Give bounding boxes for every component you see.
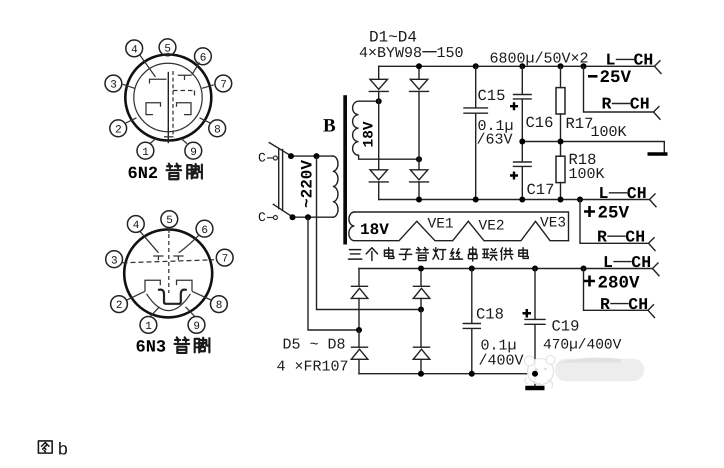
svg-text:18V: 18V (362, 121, 378, 147)
output fork R-CH -25V (654, 107, 661, 120)
label lian (connect) (483, 249, 497, 260)
svg-text:C: C (258, 150, 266, 165)
svg-text:6N3: 6N3 (136, 339, 167, 358)
label 4xBYW98-150 (359, 45, 464, 62)
6N2 pin3 lead (123, 84, 135, 88)
6N2 left cathode bracket (146, 103, 161, 115)
output fork L-CH +25V (650, 194, 657, 207)
svg-text:CH: CH (631, 253, 651, 272)
svg-text:2: 2 (115, 124, 122, 136)
wire +25V R-CH branch (580, 200, 648, 244)
6N3 center dashed line (168, 234, 170, 293)
svg-text:CH: CH (625, 227, 645, 246)
svg-text:4 ×FR107: 4 ×FR107 (277, 359, 349, 376)
label san (three) (348, 250, 361, 260)
diode D5 (351, 269, 368, 331)
diode D3 (369, 101, 388, 199)
svg-text:CH: CH (634, 51, 654, 70)
svg-text:VE2: VE2 (479, 219, 505, 235)
node top rail C16 (519, 63, 525, 69)
node top rail R17 (558, 63, 564, 69)
6N3 pin 1 (140, 317, 157, 334)
diode D6 (413, 269, 430, 310)
svg-text:C16: C16 (526, 114, 554, 132)
svg-text:L: L (603, 253, 613, 272)
node top rail branch (581, 63, 587, 69)
svg-text:VE1: VE1 (428, 217, 454, 233)
node +25 C15 (473, 197, 479, 203)
wire +280V R-CH branch (584, 269, 649, 311)
label zi (tube) (399, 249, 411, 260)
svg-text:C15: C15 (478, 87, 506, 105)
6N2 pin 7 (215, 75, 232, 92)
6N3 pin4 grid curve (140, 231, 159, 253)
rail 0V mid (522, 142, 664, 153)
6N3 pin8 lead (192, 291, 211, 300)
svg-text:D5 ~ D8: D5 ~ D8 (283, 337, 346, 354)
label dian (power) (519, 248, 528, 259)
svg-text:6: 6 (201, 225, 208, 237)
label +280V (584, 274, 640, 294)
svg-text:5: 5 (164, 43, 171, 55)
node secondary bottom (416, 156, 422, 162)
node +280 C18 (469, 266, 475, 272)
svg-text:280V: 280V (598, 274, 641, 294)
output fork R-CH +280V (648, 305, 655, 318)
label L-CH +280V (603, 253, 651, 272)
svg-text:L: L (606, 51, 616, 70)
6N2 pin5 lead (167, 53, 169, 57)
transformer secondary 18V top winding (353, 101, 419, 159)
svg-text:8: 8 (216, 300, 223, 312)
svg-text:b: b (58, 439, 68, 459)
6N2 pin 3 (105, 75, 122, 92)
node top rail D2 (416, 63, 422, 69)
node primary top right (314, 153, 320, 159)
tube socket 6N2 inner circle (134, 63, 202, 131)
wire AC1 feed (top node to lower bridge) (317, 156, 422, 309)
6N3 right grid T (173, 256, 183, 260)
node primary top left (288, 153, 294, 159)
6N2 pin7 lead (202, 85, 214, 89)
svg-text:2: 2 (116, 300, 123, 312)
svg-text:6N2: 6N2 (128, 165, 159, 184)
svg-text:6: 6 (200, 52, 207, 64)
6N3 left grid T (153, 256, 163, 260)
6N3 base arc (147, 294, 191, 311)
6N2 pin2 lead (126, 118, 137, 123)
diode D4 (410, 159, 429, 199)
rail -25V top (379, 65, 655, 67)
ground bar right (648, 152, 668, 155)
svg-text:8: 8 (214, 124, 221, 136)
wire primary bottom (293, 216, 333, 218)
6N3 pin9 lead (186, 307, 195, 316)
6N2 left grid bar (150, 79, 167, 83)
node primary bottom left (290, 214, 296, 220)
switch blade top (269, 143, 291, 156)
label -25V (588, 68, 632, 88)
svg-text:R: R (597, 227, 607, 246)
node +25 R18 (558, 197, 564, 203)
6N3 pin1 lead (151, 307, 160, 316)
6N2 pin 5 (159, 39, 176, 56)
diode D7 (351, 330, 368, 374)
6N2 pin4 lead diagonal (140, 55, 156, 77)
AC input terminal C top (258, 150, 277, 165)
capacitor C15 (464, 66, 487, 199)
svg-text:L: L (599, 184, 609, 203)
capacitor C19 (525, 269, 545, 386)
svg-text:CH: CH (630, 95, 650, 114)
wire -25V R-CH branch (584, 66, 654, 112)
filament loop top wire (354, 212, 568, 241)
diode D8 (413, 310, 430, 374)
rail +280V (359, 268, 652, 270)
svg-text:100K: 100K (591, 124, 627, 141)
svg-text:~220V: ~220V (299, 160, 317, 208)
svg-text:9: 9 (190, 147, 197, 159)
label deng (lamp) (433, 248, 446, 260)
plus sign C17 (510, 172, 518, 180)
6N2 pin6 lead diagonal (192, 63, 200, 75)
diode D2 (410, 66, 429, 159)
svg-text:3: 3 (111, 255, 118, 267)
svg-text:7: 7 (220, 80, 227, 92)
wire primary top (291, 155, 333, 157)
node AC1 lower bridge (418, 307, 424, 313)
cable line left (278, 149, 280, 209)
output fork R-CH +25V (649, 238, 656, 251)
6N3 pin2 lead (127, 291, 145, 300)
node +280 D6 (418, 266, 424, 272)
diode D1 (369, 66, 388, 101)
svg-text:7: 7 (222, 254, 229, 266)
svg-text:470µ/400V: 470µ/400V (543, 337, 622, 353)
svg-text:150: 150 (437, 45, 464, 62)
6N2 pin1 lead (150, 138, 157, 144)
6N3 horizontal dashed line (123, 260, 215, 263)
6N2 pin 6 (195, 48, 212, 65)
6N2 anode divider line (167, 73, 169, 143)
node +25 branch (577, 197, 583, 203)
svg-text:4: 4 (131, 45, 138, 57)
6N2 grid dashed vertical (172, 71, 174, 135)
transformer primary winding (333, 156, 338, 217)
label ge (unit) (366, 248, 377, 261)
svg-text:9: 9 (193, 321, 200, 333)
label jiao (6N2 caption) (187, 164, 202, 179)
6N2 pin 2 (110, 120, 127, 137)
node bottom D8 (418, 371, 424, 377)
AC input terminal C bottom (258, 210, 277, 225)
svg-text:25V: 25V (600, 68, 632, 88)
node bottom C18 (469, 371, 475, 377)
svg-text:6800µ/50V×2: 6800µ/50V×2 (490, 51, 589, 68)
label R-CH -25V (602, 95, 650, 114)
svg-text:B: B (323, 116, 336, 137)
label guan (6N3 caption) (174, 337, 189, 353)
6N2 right grid T (178, 75, 192, 80)
switch blade bottom (273, 204, 292, 217)
svg-text:R: R (600, 295, 610, 314)
rail +25V (379, 199, 650, 201)
svg-text:C17: C17 (527, 181, 555, 199)
plus sign C19 (523, 309, 532, 318)
svg-text:/63V: /63V (477, 132, 513, 149)
6N3 pin 3 (106, 251, 123, 268)
6N3 pin 8 (211, 296, 228, 313)
resistor R17 (556, 66, 565, 141)
label L-CH -25V (606, 51, 654, 70)
6N3 pin 2 (111, 296, 128, 313)
svg-text:100K: 100K (569, 166, 605, 183)
6N2 pin 4 (126, 40, 143, 57)
node secondary top (376, 98, 382, 104)
capacitor C16 (514, 66, 532, 141)
svg-text:18V: 18V (360, 221, 389, 239)
svg-text:C18: C18 (476, 305, 504, 323)
ground bar bottom (525, 386, 544, 390)
svg-text:C19: C19 (552, 318, 580, 336)
node +280 C19 (532, 266, 538, 272)
svg-text:1: 1 (145, 321, 152, 333)
node AC2 lower bridge (356, 327, 362, 333)
plus sign C16 (510, 102, 518, 110)
6N2 right grid dashes (173, 90, 195, 92)
6N2 pin 9 (185, 142, 202, 159)
label guan (6N2 caption) (166, 164, 181, 180)
svg-text:3: 3 (110, 80, 117, 92)
6N3 pin 4 (127, 216, 144, 233)
svg-text:C: C (258, 210, 266, 225)
node +25 D4 (416, 197, 422, 203)
6N3 pin5 lead (168, 228, 170, 233)
svg-text:25V: 25V (598, 203, 630, 223)
6N2 pin 8 (209, 120, 226, 137)
svg-text:/400V: /400V (479, 352, 524, 369)
transformer secondary 18V bottom winding (349, 212, 355, 241)
svg-text:R: R (602, 95, 612, 114)
node mid R17 (558, 139, 564, 145)
6N3 pin6 grid curve (179, 235, 199, 253)
cable line right (282, 150, 284, 211)
tube socket 6N2 outer circle (125, 55, 211, 141)
watermark blob (525, 356, 645, 389)
6N2 bottom cathode tab (164, 136, 174, 138)
6N2 right grid corner (194, 91, 196, 96)
wire AC2 feed (bottom node to lower bridge) (308, 217, 359, 330)
6N2 pin 1 (137, 142, 154, 159)
svg-text:CH: CH (628, 295, 648, 314)
6N2 right cathode bracket (177, 103, 192, 115)
resistor R18 (556, 142, 565, 200)
label +25V (584, 203, 630, 223)
6N2 pin8 lead (200, 118, 211, 123)
label R-CH +25V (597, 227, 645, 246)
6N3 pin 5 (161, 211, 178, 228)
svg-text:4×BYW98: 4×BYW98 (359, 45, 422, 62)
label guan (tube) (416, 247, 428, 260)
svg-text:5: 5 (166, 215, 173, 227)
label chuan (series) (468, 247, 477, 261)
label si (filament) (450, 249, 463, 259)
node +280 branch (581, 266, 587, 272)
capacitor C18 (463, 269, 480, 374)
6N3 pin 9 (188, 317, 205, 334)
label R-CH +280V (600, 295, 648, 314)
label gong (supply) (501, 248, 513, 260)
svg-text:4: 4 (133, 220, 140, 232)
6N2 pin9 lead (180, 138, 187, 144)
svg-text:CH: CH (627, 184, 647, 203)
6N3 pin 6 (196, 220, 213, 237)
output fork L-CH -25V (655, 61, 662, 74)
svg-text:1: 1 (142, 147, 149, 159)
node primary bottom right (305, 214, 311, 220)
label jiao (6N3 caption) (195, 338, 210, 353)
capacitor C17 (514, 142, 532, 200)
6N3 pin 7 (216, 249, 233, 266)
tube socket 6N3 outer circle (124, 229, 212, 317)
label L-CH +25V (599, 184, 647, 203)
rail lower bridge bottom (359, 373, 535, 375)
node +25 C17 (519, 197, 525, 203)
node mid C16 (519, 139, 525, 145)
node top rail C15 (473, 63, 479, 69)
label dian (electric) (384, 248, 393, 259)
label tu (figure b) (38, 441, 52, 453)
6N3 left anode hat (145, 280, 160, 291)
node bottom C19 (532, 371, 538, 377)
svg-text:R17: R17 (566, 115, 594, 133)
svg-text:VE3: VE3 (540, 216, 566, 232)
svg-text:D1~D4: D1~D4 (369, 29, 417, 47)
filament chain VE1 VE2 VE3 (354, 221, 568, 240)
output fork L-CH +280V (653, 263, 660, 276)
6N3 right anode hat (177, 280, 193, 291)
transformer core B (343, 95, 347, 244)
6N3 cathode U (158, 290, 187, 304)
